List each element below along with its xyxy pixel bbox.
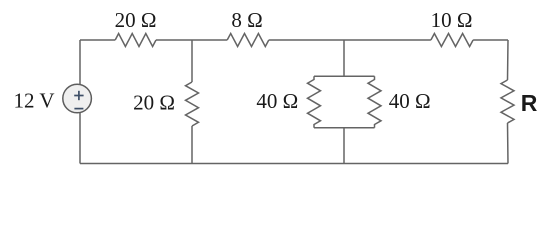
wire branch1 vertical lower	[191, 126, 193, 164]
voltage source V1 circle	[63, 84, 92, 113]
svg-text:12 V: 12 V	[14, 89, 55, 113]
svg-text:R: R	[521, 90, 538, 116]
resistor R5 40ohm left vertical zigzag	[308, 76, 321, 128]
wire parallel box bottom bar	[314, 127, 375, 129]
svg-text:40 Ω: 40 Ω	[389, 89, 431, 113]
resistor R7 load R vertical zigzag	[501, 80, 514, 123]
resistor R4 20ohm vertical zigzag	[186, 82, 199, 126]
svg-text:10 Ω: 10 Ω	[431, 8, 473, 32]
wire top-right horizontal	[473, 39, 508, 41]
wire top between R2 and R3	[269, 39, 431, 41]
svg-text:40 Ω: 40 Ω	[256, 89, 298, 113]
wire left vertical lower	[79, 112, 81, 163]
resistor R6 40ohm right vertical zigzag	[368, 76, 381, 128]
svg-text:8 Ω: 8 Ω	[231, 8, 262, 32]
wire parallel box top bar	[314, 75, 375, 77]
wire left vertical upper	[79, 40, 81, 85]
resistor R2 8ohm top-middle zigzag	[227, 34, 269, 47]
wire branch2 vertical lower	[343, 128, 345, 164]
resistor R3 10ohm top-right zigzag	[431, 34, 473, 47]
wire bottom horizontal	[80, 163, 508, 165]
svg-text:20 Ω: 20 Ω	[115, 8, 157, 32]
wire right vertical upper	[507, 40, 510, 80]
wire top between R1 and R2	[156, 39, 227, 41]
wire right vertical lower	[507, 123, 510, 164]
resistor R1 20ohm top-left zigzag	[115, 34, 156, 47]
wire top-left horizontal	[80, 39, 115, 41]
voltage source minus sign	[74, 108, 83, 110]
voltage source plus sign	[74, 91, 83, 100]
wire branch1 vertical upper	[191, 40, 193, 82]
wire branch2 vertical upper	[343, 40, 345, 76]
svg-text:20 Ω: 20 Ω	[133, 90, 175, 114]
